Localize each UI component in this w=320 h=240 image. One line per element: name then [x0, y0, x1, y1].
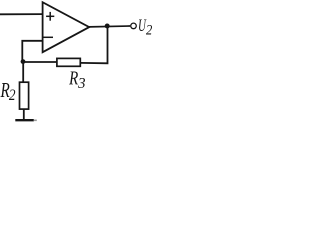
- op-amp inverting input (-) marking: [43, 36, 53, 38]
- resistor R2: [20, 82, 29, 109]
- wire: junction down to R2: [22, 62, 24, 83]
- op-amp: [43, 2, 90, 52]
- node: output junction: [105, 24, 110, 29]
- label U2: [139, 19, 147, 31]
- terminal: output circle: [131, 23, 137, 29]
- wire: inverting input lead: [22, 41, 42, 62]
- wire: non-inverting input lead from left edge: [0, 13, 43, 15]
- ground: [15, 119, 34, 121]
- resistor R3: [57, 58, 80, 66]
- wire: op-amp output to terminal: [89, 25, 130, 28]
- label R2: [0, 83, 9, 97]
- node: junction of inverting input, R2 and R3: [21, 59, 26, 64]
- wire: R2 bottom to ground: [23, 109, 25, 119]
- wire: R3 right up to output node: [80, 26, 107, 63]
- op-amp non-inverting input (+) marking: [46, 12, 54, 21]
- wire: junction to R3 left: [23, 61, 57, 63]
- label R3: [69, 71, 78, 84]
